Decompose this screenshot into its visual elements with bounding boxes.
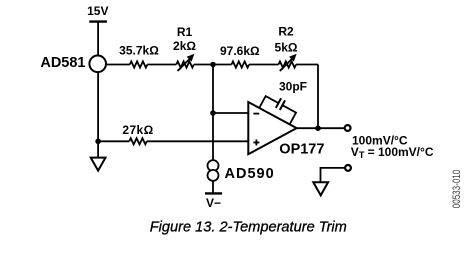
wire lower terminal to ground — [321, 168, 345, 182]
junction dot node A — [210, 62, 216, 68]
svg-text:R1: R1 — [177, 25, 193, 39]
supply 15V terminal bar — [89, 20, 107, 22]
resistor 27k zigzag — [129, 138, 147, 144]
svg-text:V−: V− — [206, 196, 221, 210]
svg-text:27kΩ: 27kΩ — [122, 123, 153, 137]
svg-text:15V: 15V — [87, 4, 108, 18]
wire 27k to non-inverting input — [147, 140, 249, 142]
wire op-amp output to terminal — [297, 127, 345, 129]
junction dot output node — [315, 125, 321, 131]
trimmer R1 wiper arrow — [178, 59, 191, 72]
ground symbol left — [91, 158, 106, 171]
svg-text:R2: R2 — [278, 25, 294, 39]
svg-text:Figure 13. 2-Temperature Trim: Figure 13. 2-Temperature Trim — [150, 220, 347, 236]
wire 35.7k to trimmer R1 — [147, 64, 176, 66]
capacitor C 30pF across op amp (tilted) — [259, 91, 298, 124]
wire to inverting input — [213, 112, 248, 114]
resistor 35.7k zigzag — [130, 61, 148, 67]
wire 97.6k to trimmer R2 — [249, 64, 279, 66]
wire lower node to resistor 27k — [98, 140, 129, 142]
svg-text:OP177: OP177 — [279, 142, 324, 158]
wire AD590 to V- bar — [212, 182, 214, 194]
output terminal circle — [345, 125, 351, 131]
resistor 97.6k zigzag — [232, 61, 250, 67]
svg-text:AD581: AD581 — [40, 55, 85, 71]
op-amp U OP177 triangle — [248, 102, 296, 154]
junction dot inverting input tap — [210, 110, 216, 116]
wire R1 to node A — [194, 64, 213, 66]
junction dot at AD581 lower node — [95, 139, 101, 145]
current source AD590 (two circles) — [208, 160, 219, 171]
svg-text:97.6kΩ: 97.6kΩ — [220, 44, 260, 58]
svg-text:2kΩ: 2kΩ — [173, 39, 196, 53]
trimmer R2 wiper arrow — [280, 59, 293, 72]
wire R2 to feedback corner — [296, 64, 318, 66]
wire AD581 bottom to lower node — [97, 72, 99, 141]
ground symbol right — [313, 182, 328, 195]
svg-text:30pF: 30pF — [279, 80, 307, 94]
op-amp plus input sign — [253, 142, 259, 144]
svg-text:5kΩ: 5kΩ — [275, 41, 298, 55]
voltage reference U AD581 (circle) — [89, 56, 106, 73]
wire node to ground — [97, 141, 99, 157]
svg-text:00533-010: 00533-010 — [451, 170, 464, 209]
svg-text:35.7kΩ: 35.7kΩ — [119, 44, 159, 58]
trimmer resistor R1 zigzag — [176, 61, 194, 67]
wire main vertical node A down to AD590 — [212, 65, 214, 161]
wire node A to resistor 97.6k — [213, 64, 232, 66]
svg-text:AD590: AD590 — [225, 166, 275, 182]
wire 15V bar to AD581 top — [97, 22, 99, 56]
trimmer resistor R2 zigzag — [279, 61, 297, 67]
supply V- terminal bar — [205, 192, 222, 194]
reference terminal circle (lower) — [345, 165, 351, 171]
op-amp minus input sign — [253, 113, 259, 115]
wire AD581 right to resistor 35.7k — [107, 64, 130, 66]
wire feedback vertical to output node — [317, 65, 319, 129]
